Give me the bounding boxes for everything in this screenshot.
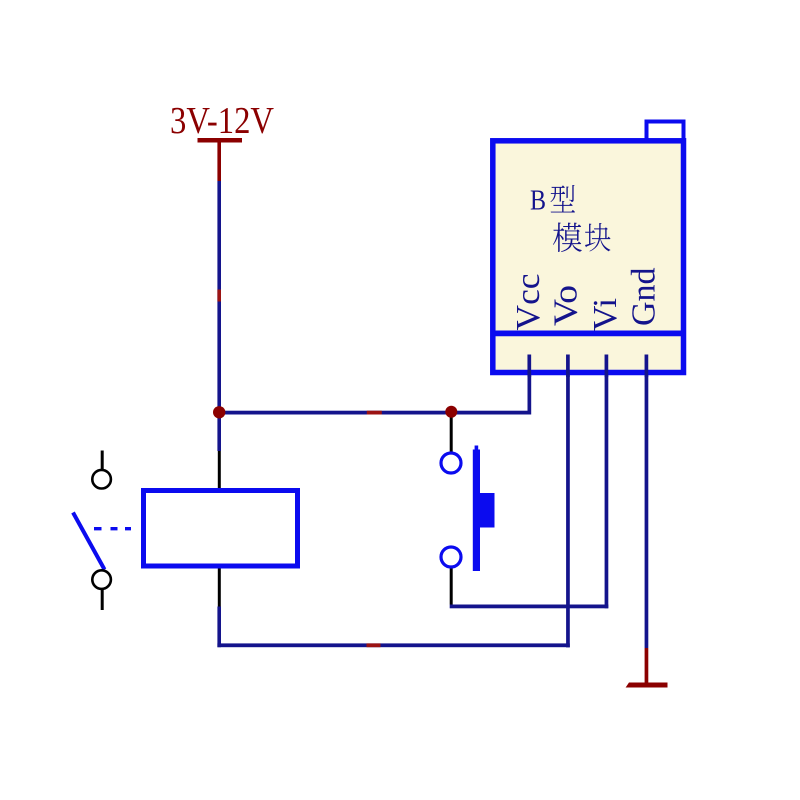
node junction dot left <box>213 406 225 418</box>
power symbol bar <box>198 138 243 143</box>
wire power stem (maroon segment) <box>217 142 221 181</box>
wire relay bottom (black segment) <box>218 569 221 607</box>
module pin stubs <box>529 355 646 378</box>
wire junction to relay coil (navy segment) <box>217 412 221 451</box>
wire button bottom lead (black) <box>450 567 453 605</box>
switch S1 top stub <box>101 451 104 470</box>
wire Vi pin drop <box>605 355 609 609</box>
switch S1 bottom contact <box>92 570 111 589</box>
wire junction to relay coil (black segment) <box>218 451 221 489</box>
module label CJK kuai <box>585 223 611 251</box>
svg-text:3V-12V: 3V-12V <box>170 100 274 142</box>
svg-text:B: B <box>530 185 546 217</box>
wire bottom rail to Vo <box>217 643 569 647</box>
module label CJK xing <box>551 185 575 213</box>
node junction dot right <box>445 406 457 418</box>
wire button top lead (black) <box>450 418 453 454</box>
wire Gnd pin drop (navy segment) <box>645 355 649 649</box>
relay coil K1 <box>144 491 298 567</box>
svg-text:Gnd: Gnd <box>626 267 663 326</box>
net color dash on power stem <box>217 290 221 302</box>
switch S1 lever <box>73 513 105 570</box>
module pin strip separator <box>493 330 683 336</box>
svg-text:Vi: Vi <box>587 298 624 331</box>
svg-text:Vcc: Vcc <box>510 274 547 331</box>
net color dash on bottom rail <box>367 643 381 647</box>
module notch tab <box>647 122 684 144</box>
switch S1 top contact <box>92 470 111 489</box>
svg-text:Vo: Vo <box>548 285 585 326</box>
pushbutton S2 plunger <box>480 493 495 528</box>
wire relay bottom (navy segment) <box>217 607 221 648</box>
net color dash on top rail <box>367 411 382 415</box>
wire Vcc pin drop <box>528 355 532 415</box>
pushbutton S2 top contact <box>441 453 461 473</box>
module label CJK mo <box>553 223 582 252</box>
pushbutton S2 actuator bar <box>473 446 480 572</box>
wire top power rail <box>217 411 531 415</box>
wire Gnd drop (maroon segment) <box>645 648 649 683</box>
module U1 body <box>493 141 684 373</box>
switch S1 bottom stub <box>101 590 104 610</box>
switch linkage dashes <box>94 527 131 530</box>
wire button rail to Vi <box>450 605 609 609</box>
ground symbol <box>626 683 668 688</box>
wire Vo pin drop <box>566 355 570 648</box>
wire power stem (navy segment) <box>217 181 221 412</box>
pushbutton S2 bottom contact <box>441 547 461 567</box>
